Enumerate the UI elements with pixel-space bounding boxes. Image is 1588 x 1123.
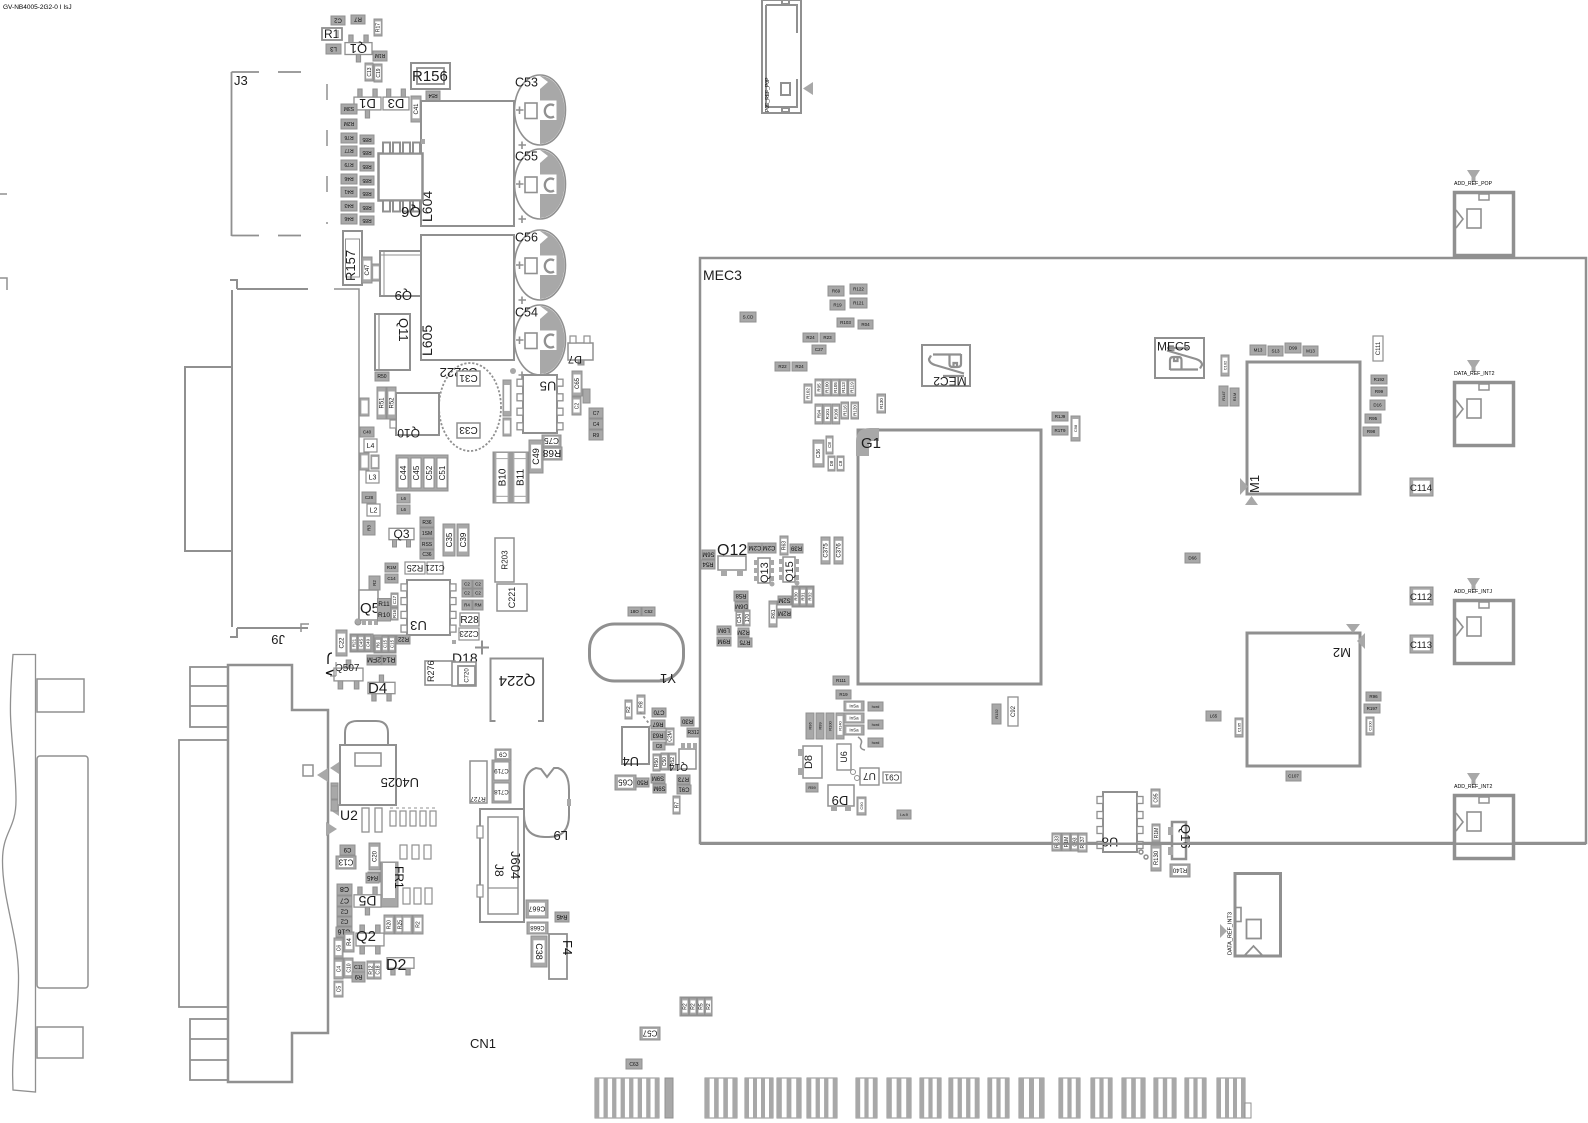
capacitor C719: [494, 762, 509, 780]
pad group 17: [1217, 1078, 1245, 1118]
svg-text:L2: L2: [370, 508, 378, 515]
svg-text:Q9: Q9: [395, 288, 412, 303]
regulator U8: [1097, 792, 1143, 852]
svg-text:R16: R16: [392, 609, 397, 618]
svg-text:R95: R95: [816, 383, 821, 392]
connector J3: [232, 72, 302, 236]
wire dashes right of J3: [326, 84, 328, 224]
svg-text:C105: C105: [1236, 722, 1241, 732]
svg-text:R192: R192: [1374, 377, 1385, 382]
res RA2: [473, 600, 483, 610]
capacitor C70: [652, 708, 666, 717]
capacitor C51: [437, 458, 447, 488]
bead B11: [512, 452, 528, 503]
svg-text:R85: R85: [362, 163, 371, 169]
resistor R1=2: [1371, 375, 1387, 384]
svg-text:L605: L605: [419, 325, 435, 356]
res S9M: [651, 774, 665, 783]
regulator U7: [860, 768, 879, 785]
capacitor C45: [411, 458, 421, 488]
svg-text:hcrd: hcrd: [872, 722, 880, 727]
resistor R2M3: [367, 655, 381, 665]
svg-text:R54: R54: [702, 560, 714, 566]
capacitor C2Mv: [666, 728, 674, 745]
svg-text:R68: R68: [542, 447, 561, 458]
resistor R1S9: [331, 800, 338, 811]
svg-text:R113: R113: [841, 382, 846, 393]
capacitor C33: [457, 423, 480, 438]
svg-text:InSa: InSa: [849, 728, 859, 733]
svg-text:R3: R3: [367, 525, 372, 531]
DVI pin block top: [190, 667, 228, 727]
svg-text:R32: R32: [808, 592, 813, 601]
svg-text:R100: R100: [827, 720, 832, 730]
resistor R17b: [352, 973, 365, 982]
capacitor C667: [526, 900, 548, 918]
resistor R30v: [793, 587, 799, 606]
svg-text:S2M: S2M: [778, 596, 790, 602]
svg-text:C4: C4: [336, 966, 342, 973]
svg-text:Q507: Q507: [335, 663, 360, 674]
svg-text:C102: C102: [1222, 360, 1227, 370]
svg-text:R98: R98: [1367, 429, 1376, 434]
capacitor C65b: [615, 775, 636, 790]
svg-text:C2M: C2M: [763, 544, 776, 550]
svg-text:R2M: R2M: [778, 609, 791, 615]
res R50v1: [653, 754, 660, 771]
pin row 3: [403, 888, 410, 904]
svg-text:C5: C5: [336, 986, 342, 993]
svg-text:C9: C9: [343, 846, 351, 852]
resistor R1=7: [1364, 704, 1380, 713]
svg-text:J3: J3: [234, 73, 248, 88]
resistor RBB: [368, 872, 380, 882]
svg-text:C375: C375: [824, 543, 830, 558]
capacitor C22: [336, 630, 347, 656]
inductor L3b: [366, 471, 379, 483]
inductor L2: [367, 504, 380, 516]
capacitor C668: [527, 922, 548, 934]
svg-text:D2: D2: [386, 957, 407, 974]
arrow marker: [326, 822, 337, 836]
svg-text:CN1: CN1: [470, 1036, 496, 1051]
svg-text:D9: D9: [832, 793, 849, 808]
svg-text:R137: R137: [1080, 836, 1086, 848]
resistor R11B: [836, 690, 851, 699]
connector DATA_REF_INT3: [1220, 874, 1281, 957]
svg-text:R85: R85: [362, 204, 371, 210]
cap CB2: [473, 589, 483, 597]
svg-text:R1: R1: [324, 27, 340, 41]
connector P0E: [762, 0, 801, 113]
capacitor C10v: [344, 958, 353, 978]
resistor R19: [830, 300, 845, 310]
svg-text:R76: R76: [344, 134, 353, 140]
regulator U4: [622, 727, 649, 764]
resistor R122: [850, 284, 867, 294]
svg-text:C49: C49: [531, 448, 541, 465]
capacitor C38: [531, 936, 547, 967]
capacitor C111: [1373, 336, 1383, 361]
svg-text:G1: G1: [861, 435, 881, 452]
svg-text:P0E_REF_P0P: P0E_REF_P0P: [765, 77, 771, 112]
diode D2: [387, 958, 414, 975]
regulator U6: [837, 744, 851, 770]
svg-text:170: 170: [745, 614, 751, 623]
svg-text:C47: C47: [365, 264, 371, 276]
resistor R95: [815, 379, 823, 396]
svg-text:DATA_REF_INT2: DATA_REF_INT2: [1454, 371, 1495, 377]
svg-text:M13: M13: [1254, 348, 1263, 353]
capacitor C720: [458, 666, 475, 685]
svg-text:R133: R133: [1054, 836, 1060, 848]
svg-text:R20: R20: [387, 920, 393, 929]
DVI hole: [303, 765, 313, 776]
chip C44a: [589, 419, 603, 429]
diode D18 body: [452, 662, 476, 686]
resistor R63: [651, 731, 665, 740]
bracket window: [37, 756, 88, 988]
svg-text:C2: C2: [464, 591, 470, 596]
svg-text:ADD_REF_INT2: ADD_REF_INT2: [1454, 784, 1492, 790]
svg-text:Q6: Q6: [401, 203, 421, 220]
svg-text:R119: R119: [850, 382, 855, 393]
svg-text:C63: C63: [629, 1062, 638, 1068]
resistor R12b: [367, 961, 374, 979]
svg-text:InSa: InSa: [849, 716, 859, 721]
capacitor C9b: [340, 845, 355, 855]
svg-text:R2: R2: [683, 1003, 689, 1010]
capacitor C4S: [358, 635, 364, 651]
capacitor C14: [385, 574, 398, 583]
capacitor C105: [1235, 718, 1243, 737]
svg-text:R19: R19: [839, 692, 848, 697]
svg-text:ADD_REF_POP: ADD_REF_POP: [1454, 181, 1493, 187]
resistor R25b: [395, 915, 405, 934]
chip M1: [1247, 362, 1360, 494]
svg-text:R14: R14: [382, 656, 395, 663]
svg-text:C70: C70: [653, 708, 665, 714]
capacitor C93: [1071, 833, 1078, 851]
resistor R43: [341, 201, 357, 211]
resistor R9M: [589, 430, 603, 440]
svg-text:1SM: 1SM: [422, 531, 432, 537]
resistor R46: [341, 214, 357, 224]
wire squiggle: [858, 737, 865, 750]
svg-text:R59: R59: [808, 785, 816, 790]
res M13a: [1250, 345, 1266, 355]
capacitor C375: [821, 537, 830, 564]
DVI pin block bottom: [190, 1019, 228, 1080]
svg-text:hcrd: hcrd: [872, 704, 880, 709]
svg-text:U3: U3: [410, 618, 427, 633]
svg-text:R203: R203: [500, 550, 509, 570]
svg-text:U5: U5: [540, 378, 557, 393]
resistor R22: [775, 362, 790, 371]
svg-text:C114: C114: [1410, 483, 1432, 494]
svg-text:R122: R122: [853, 287, 864, 292]
U2 pins: [362, 808, 369, 832]
svg-text:C31: C31: [459, 372, 478, 383]
svg-text:C50: C50: [662, 757, 668, 766]
svg-text:C41: C41: [414, 103, 420, 115]
arrow marker: [803, 82, 813, 95]
capacitor C40: [360, 427, 374, 437]
inductor L3: [326, 44, 341, 54]
svg-text:C221: C221: [507, 587, 517, 609]
svg-text:C44: C44: [399, 465, 408, 480]
capacitor C221: [497, 584, 527, 611]
resistor R121: [850, 298, 867, 308]
svg-text:C34: C34: [737, 614, 743, 623]
inductor L604: [421, 101, 514, 226]
res S13: [1268, 346, 1283, 356]
svg-text:C8: C8: [656, 744, 663, 750]
svg-text:C667: C667: [529, 905, 546, 912]
svg-text:GV-NB4005-2G2-0 I IsJ: GV-NB4005-2G2-0 I IsJ: [3, 4, 72, 11]
res S2M: [778, 596, 791, 605]
svg-text:R1M: R1M: [1154, 828, 1160, 839]
resistor R130b: [1151, 845, 1161, 871]
svg-text:R109: R109: [834, 408, 839, 419]
capacitor C54: [515, 305, 566, 379]
resistor R75: [738, 638, 752, 647]
svg-text:R9: R9: [593, 433, 600, 439]
capacitor C121: [425, 562, 445, 574]
resistor R23: [820, 333, 835, 342]
svg-text:C20: C20: [373, 850, 379, 862]
svg-text:C39: C39: [459, 532, 468, 547]
svg-text:D5: D5: [358, 893, 376, 909]
inductor L65: [1206, 711, 1221, 721]
svg-text:Q15: Q15: [784, 561, 796, 582]
svg-text:D3: D3: [388, 96, 405, 111]
resistor R5M1: [377, 387, 386, 419]
capacitor C2: [331, 16, 345, 25]
svg-text:R12: R12: [368, 965, 374, 974]
svg-text:R4: R4: [464, 603, 470, 608]
capacitor C91: [883, 772, 901, 783]
transistor Q16: [1172, 822, 1186, 859]
res R52v: [669, 753, 676, 770]
svg-text:S3M: S3M: [344, 105, 354, 111]
diode D76: [1185, 553, 1200, 563]
pad group 8: [920, 1078, 941, 1118]
svg-text:B10: B10: [498, 468, 509, 486]
capacitor C5222: [439, 363, 501, 451]
transistor Q507: [334, 660, 363, 689]
svg-text:R28: R28: [460, 615, 479, 626]
svg-text:J604: J604: [508, 851, 523, 879]
resistor R7: [351, 15, 365, 24]
fuse F4: [549, 934, 567, 979]
svg-text:R111: R111: [836, 678, 847, 683]
svg-text:M13: M13: [1306, 349, 1315, 354]
svg-text:R52: R52: [390, 397, 396, 409]
chip InSa1: [844, 701, 864, 711]
pad single: [665, 1078, 673, 1118]
cap CA2: [473, 580, 483, 588]
chip group R6 C1S: [374, 635, 396, 653]
resistor R203: [495, 538, 514, 582]
resistor R17: [374, 19, 382, 36]
svg-text:C49: C49: [366, 638, 371, 647]
svg-text:R22: R22: [778, 364, 787, 369]
svg-text:D4: D4: [368, 680, 387, 697]
svg-text:R116: R116: [842, 405, 847, 416]
capacitor C19a: [374, 64, 382, 82]
transistor Q3: [389, 527, 414, 547]
svg-text:C2: C2: [475, 582, 481, 587]
resistor R140: [836, 713, 844, 739]
svg-text:R21: R21: [352, 638, 357, 647]
svg-text:L6: L6: [401, 507, 407, 512]
svg-text:R140: R140: [837, 720, 842, 730]
chip M2: [1247, 633, 1360, 766]
svg-text:C376: C376: [837, 543, 843, 558]
capacitor C88: [837, 456, 844, 471]
capacitor C112: [1410, 587, 1433, 605]
diode D6: [828, 456, 835, 471]
inductor L9: [524, 768, 569, 837]
capacitor C28: [362, 492, 376, 503]
svg-text:R39: R39: [790, 544, 802, 550]
transistor Q10: [396, 393, 439, 435]
svg-text:C90: C90: [859, 802, 864, 810]
diode D9: [828, 785, 854, 806]
resistor R59: [806, 783, 818, 792]
svg-text:R120: R120: [852, 405, 857, 416]
svg-text:L4: L4: [367, 443, 375, 450]
wire diagonal: [640, 712, 651, 726]
resistor SCD: [740, 312, 756, 322]
pad group 6: [856, 1078, 877, 1118]
capacitor C5v: [334, 981, 343, 997]
svg-text:R2: R2: [626, 706, 632, 713]
svg-text:C35: C35: [445, 532, 454, 547]
svg-text:C718: C718: [494, 788, 509, 794]
inductor L1b: [397, 505, 410, 514]
resistor R147: [1219, 386, 1228, 406]
svg-text:R63: R63: [782, 541, 788, 550]
svg-text:R727: R727: [470, 795, 486, 802]
svg-text:Q3: Q3: [393, 527, 409, 541]
svg-text:D8: D8: [829, 460, 834, 466]
resistor R67: [651, 720, 665, 729]
crosshair: [475, 641, 489, 655]
svg-text:R132: R132: [994, 708, 999, 718]
resistor R104: [858, 320, 873, 329]
capacitor C57: [640, 1027, 660, 1040]
resistor R73: [677, 775, 690, 784]
capacitor CJ: [495, 749, 511, 760]
pad group 13: [1091, 1078, 1112, 1118]
capacitor C102: [1221, 355, 1229, 376]
svg-text:U8: U8: [1102, 835, 1119, 850]
resistor R36a: [420, 517, 434, 527]
diode D6M: [735, 602, 748, 611]
resistor R156: [411, 63, 450, 89]
resistor R119: [848, 379, 856, 396]
capacitor C223: [459, 628, 479, 640]
svg-text:R130: R130: [1154, 850, 1160, 865]
svg-text:R25: R25: [407, 563, 424, 573]
chip InSa3: [844, 725, 864, 735]
svg-text:R2: R2: [416, 921, 422, 928]
pad notch: [1245, 1103, 1251, 1118]
svg-text:Q10: Q10: [397, 426, 420, 440]
resistor R9b: [352, 972, 365, 982]
svg-text:R1J9: R1J9: [1055, 414, 1066, 419]
svg-text:Y1: Y1: [660, 671, 676, 686]
svg-text:C18: C18: [375, 965, 381, 974]
resistor R2d: [705, 998, 712, 1015]
resistor R77: [341, 146, 357, 156]
svg-text:U4025: U4025: [381, 775, 419, 790]
svg-text:R105: R105: [833, 382, 838, 393]
svg-text:U2: U2: [340, 807, 358, 823]
svg-text:R22: R22: [397, 635, 409, 641]
resistor R2M: [341, 119, 357, 129]
pad group 2: [705, 1078, 737, 1118]
pad group 7: [887, 1078, 911, 1118]
svg-text:R7: R7: [674, 802, 680, 809]
resistor R101: [824, 404, 832, 424]
svg-text:Q2: Q2: [356, 928, 376, 945]
transistor Q9: [380, 251, 421, 296]
svg-text:R46: R46: [344, 215, 353, 221]
resistor R1: [322, 28, 342, 40]
resistor R94: [815, 404, 823, 424]
svg-text:C56: C56: [515, 231, 538, 245]
bracket tab top: [37, 679, 84, 712]
resistor R153: [331, 783, 338, 797]
resistor R61v: [769, 601, 777, 627]
resistor RMB: [360, 398, 369, 416]
capacitor C65a: [572, 371, 582, 396]
svg-text:C36: C36: [816, 449, 822, 458]
resistor R276: [425, 661, 455, 685]
resistor R1Mv: [1062, 833, 1070, 851]
connector J604/J8: [480, 809, 524, 922]
capacitor C114: [1410, 478, 1433, 496]
svg-text:S9M: S9M: [653, 784, 665, 790]
capacitor C52: [424, 458, 434, 488]
capacitor C2c: [337, 917, 352, 926]
svg-text:C107: C107: [1288, 774, 1299, 779]
svg-text:C11: C11: [354, 965, 363, 971]
logo MEC5: [1155, 338, 1204, 378]
svg-text:R04: R04: [861, 322, 870, 327]
resistor RM2: [360, 453, 369, 470]
cap slab: [492, 760, 511, 803]
svg-text:J8: J8: [492, 864, 506, 877]
svg-text:R30: R30: [681, 717, 693, 723]
svg-text:L6: L6: [401, 496, 407, 501]
svg-text:R130: R130: [879, 398, 884, 409]
resistor R=9: [1371, 387, 1387, 396]
svg-text:D8: D8: [803, 755, 815, 769]
svg-text:R79: R79: [344, 161, 353, 167]
resistor R20: [384, 915, 394, 934]
svg-text:R157: R157: [343, 250, 358, 281]
svg-text:R9: R9: [354, 973, 362, 979]
svg-text:R23: R23: [823, 335, 832, 340]
svg-text:R31: R31: [801, 592, 806, 601]
svg-text:J9: J9: [271, 632, 285, 647]
pin row 2: [400, 845, 407, 859]
wire stub: [330, 662, 336, 676]
